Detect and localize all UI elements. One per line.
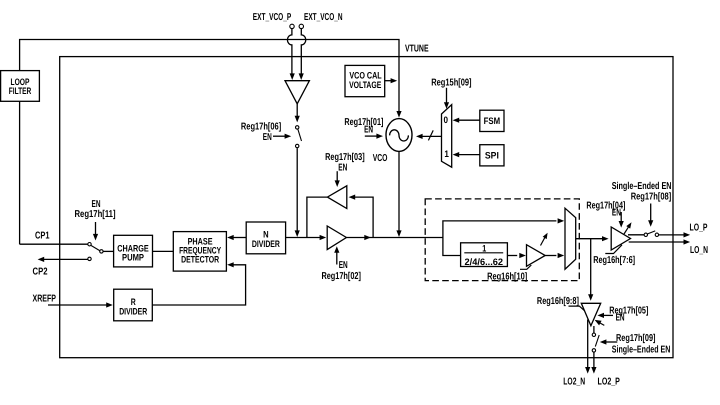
svg-text:LO2_P: LO2_P <box>598 376 621 387</box>
svg-text:Reg16h[10]: Reg16h[10] <box>487 271 527 282</box>
svg-text:LO2_N: LO2_N <box>563 376 585 387</box>
svg-text:EN: EN <box>339 260 348 271</box>
svg-text:EN: EN <box>612 208 621 219</box>
svg-text:0: 0 <box>444 114 449 125</box>
svg-text:Reg15h[09]: Reg15h[09] <box>431 77 471 88</box>
svg-text:Reg16h[7:6]: Reg16h[7:6] <box>593 255 635 266</box>
svg-text:Reg17h[11]: Reg17h[11] <box>75 209 116 220</box>
svg-text:VTUNE: VTUNE <box>405 43 429 54</box>
svg-text:EN: EN <box>263 132 272 143</box>
svg-text:FILTER: FILTER <box>9 85 32 96</box>
svg-text:EXT_VCO_N: EXT_VCO_N <box>304 12 343 23</box>
svg-text:Single–Ended EN: Single–Ended EN <box>612 344 671 355</box>
svg-text:Reg17h[09]: Reg17h[09] <box>616 333 656 344</box>
svg-text:PUMP: PUMP <box>122 251 144 262</box>
svg-text:XREFP: XREFP <box>33 294 57 305</box>
svg-text:EN: EN <box>338 162 347 173</box>
svg-text:EN: EN <box>616 313 625 324</box>
svg-text:2/4/6...62: 2/4/6...62 <box>465 256 504 267</box>
svg-text:CP2: CP2 <box>33 267 48 278</box>
svg-text:DIVIDER: DIVIDER <box>252 238 280 249</box>
svg-text:DIVIDER: DIVIDER <box>119 306 147 317</box>
svg-text:Single–Ended EN: Single–Ended EN <box>612 181 672 192</box>
svg-text:1: 1 <box>482 243 486 254</box>
svg-text:EXT_VCO_P: EXT_VCO_P <box>253 12 292 23</box>
svg-text:FSM: FSM <box>484 115 501 126</box>
svg-text:VOLTAGE: VOLTAGE <box>349 79 381 90</box>
svg-text:Reg17h[02]: Reg17h[02] <box>321 271 361 282</box>
svg-text:LO_N: LO_N <box>690 245 708 256</box>
svg-text:DETECTOR: DETECTOR <box>181 253 219 264</box>
svg-text:Reg17h[08]: Reg17h[08] <box>631 192 672 203</box>
svg-text:1: 1 <box>444 148 449 159</box>
svg-text:SPI: SPI <box>485 150 499 161</box>
svg-text:CP1: CP1 <box>35 231 50 242</box>
svg-text:VCO: VCO <box>373 153 388 164</box>
svg-text:EN: EN <box>364 125 373 136</box>
svg-text:LO_P: LO_P <box>690 223 708 234</box>
svg-text:Reg16h[9:8]: Reg16h[9:8] <box>537 296 579 307</box>
svg-text:Reg17h[06]: Reg17h[06] <box>241 121 281 132</box>
